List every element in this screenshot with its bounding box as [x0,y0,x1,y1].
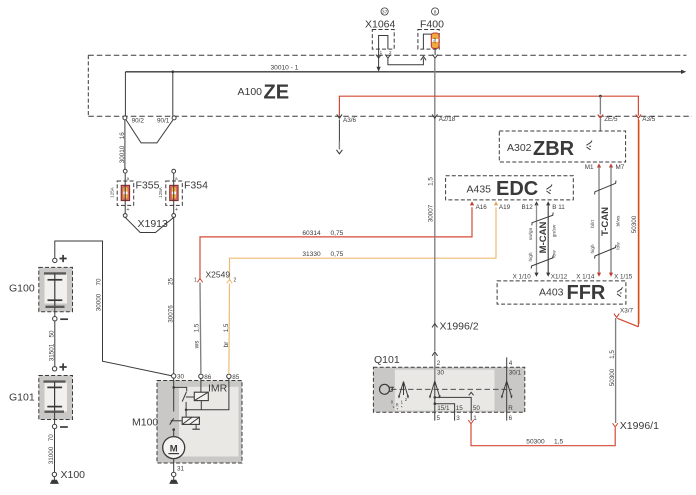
solenoid coil [182,417,199,424]
aux contact [391,382,409,410]
svg-text:2: 2 [437,360,441,367]
wire 30076 25 [173,217,175,373]
connector arrow at Q101 pin1 [468,420,473,424]
pin 31 [173,459,175,473]
svg-text:G100: G100 [9,283,35,295]
wire 50300 red down right side [637,119,639,327]
fuse F400 element 15A [431,33,439,48]
svg-text:M1: M1 [585,164,594,171]
svg-text:5: 5 [437,415,441,422]
pin B11 [546,201,550,205]
ignition switch Q101 box [373,367,524,412]
svg-text:15: 15 [456,405,464,412]
svg-text:A3/5: A3/5 [642,116,655,123]
svg-text:1: 1 [473,415,477,422]
connector glyph FFR [617,287,623,296]
svg-text:T-CAN: T-CAN [600,207,611,236]
wire 50300 1,5 red bottom [471,424,615,446]
svg-text:ZE: ZE [264,82,290,104]
svg-text:ZE/5: ZE/5 [604,116,618,123]
svg-text:high: high [528,252,534,261]
pin M1 [597,163,601,167]
svg-text:37: 37 [382,9,388,15]
wire 15/1 [434,404,436,413]
svg-text:+: + [175,207,178,213]
pin 30 [172,374,176,378]
mechanical link dashed [391,388,512,390]
svg-text:4: 4 [509,360,513,367]
svg-text:16: 16 [119,132,126,140]
svg-text:86: 86 [204,374,212,381]
wire 31000 70 [54,429,56,473]
connector X2549 pin1 [197,279,202,283]
connector X100 ground [50,472,59,484]
svg-text:31000: 31000 [48,446,55,464]
svg-text:70: 70 [48,434,55,442]
svg-text:90/2: 90/2 [132,118,145,125]
wire to relay contact [174,387,187,391]
svg-text:F355: F355 [136,180,160,192]
svg-text:F354: F354 [184,180,208,192]
wire bus to pin 90/2 [124,72,126,116]
wire 30010 16 to F355 [124,120,126,169]
pin B12 [534,201,538,205]
svg-text:30: 30 [437,370,445,377]
connector X1996/2 [432,324,437,328]
svg-text:B 11: B 11 [552,204,565,211]
svg-text:8: 8 [434,9,437,15]
svg-text:A403: A403 [539,287,564,299]
pin arrow X1/14 [597,273,601,277]
svg-text:31: 31 [177,465,185,472]
svg-text:bl/ws: bl/ws [615,215,621,227]
svg-text:A100: A100 [238,86,263,98]
svg-text:30010: 30010 [119,145,126,163]
relay contact arm [182,392,186,402]
svg-text:31330: 31330 [302,251,321,258]
wire bus to pin 90/1 [172,72,174,116]
harness funnel under 90/2 90/1 [126,120,173,143]
wire pin86 to coil [200,379,202,393]
svg-text:2: 2 [234,278,237,284]
svg-text:60314: 60314 [302,230,321,237]
svg-text:low: low [551,250,557,258]
ECU A100 ZE dashed box [88,55,692,116]
pin 90/1 [172,116,176,120]
svg-text:30010 - 1: 30010 - 1 [271,65,299,72]
main contact 30 [429,360,445,405]
contact R [501,357,522,401]
svg-text:30: 30 [177,374,185,381]
connector X1064 housing [372,30,394,56]
svg-text:70: 70 [96,278,103,286]
svg-text:A19: A19 [499,204,511,211]
svg-text:X3/7: X3/7 [620,307,633,314]
svg-text:25: 25 [168,278,175,286]
main contact [170,418,174,424]
svg-text:FFR: FFR [567,282,606,304]
svg-text:Q101: Q101 [374,354,400,366]
svg-text:M: M [170,443,178,454]
svg-text:B12: B12 [522,204,534,211]
svg-text:X 1/14: X 1/14 [576,273,595,280]
svg-text:90/1: 90/1 [157,118,170,125]
red feed wire inside ZE [339,95,638,116]
svg-text:M100: M100 [132,417,158,429]
T-CAN low wire [610,167,612,273]
wire br 1,5 to pin85 [228,284,231,375]
svg-text:1,5: 1,5 [554,438,563,445]
svg-text:31501: 31501 [48,343,55,361]
ground under M100 [173,477,175,480]
svg-text:M-CAN: M-CAN [538,222,549,254]
T-CAN high wire [598,167,600,273]
svg-text:50: 50 [48,330,55,338]
svg-text:30000: 30000 [96,293,103,311]
pin arrow F400 output [432,55,437,59]
svg-text:15A: 15A [433,37,437,44]
svg-text:low: low [615,242,621,250]
svg-text:1,5: 1,5 [609,350,616,359]
svg-text:0,75: 0,75 [331,230,344,237]
svg-text:1,5: 1,5 [223,323,230,332]
pin A19 [494,201,498,205]
M-CAN low wire [547,205,549,274]
T-CAN twist top [595,181,616,195]
pin 86 [199,374,203,378]
svg-text:IMR: IMR [208,383,228,395]
svg-text:X 1/15: X 1/15 [614,273,633,280]
svg-text:gn/sw: gn/sw [551,224,557,237]
svg-text:R: R [508,405,513,412]
svg-text:A16: A16 [476,204,488,211]
fuse F354 [158,169,208,217]
svg-text:R: R [396,402,399,407]
connector X1996/1 [613,423,618,427]
svg-text:A302: A302 [507,142,532,154]
ECU A403 FFR box [497,281,626,304]
fuse F355 [109,169,159,217]
pin 85 [227,374,231,378]
svg-text:X 1/10: X 1/10 [513,273,532,280]
svg-text:X1064: X1064 [365,19,396,31]
wire ZE/5 drop [599,96,601,114]
svg-text:1: 1 [194,278,197,284]
pin A16 [470,201,474,205]
svg-text:EDC: EDC [496,178,538,200]
svg-text:1,5: 1,5 [194,323,201,332]
ECU A435 EDC box [446,176,574,200]
relay coil IMR [194,392,208,400]
bus wire 30010-1 [125,65,686,74]
svg-text:6: 6 [509,415,513,422]
svg-text:50300: 50300 [609,368,616,386]
fuse F400 box [418,30,439,50]
svg-text:X100: X100 [61,469,86,481]
svg-text:A3/6: A3/6 [343,117,356,124]
svg-text:X1/12: X1/12 [551,273,568,280]
svg-text:30007: 30007 [428,204,435,222]
wire 30000 70 battery to starter [55,241,172,376]
svg-text:15/1: 15/1 [437,405,450,412]
svg-text:3: 3 [456,415,460,422]
key symbol [380,384,395,394]
svg-text:M7: M7 [616,164,625,171]
wire pin30 down [173,378,175,411]
svg-text:+: + [126,207,129,213]
svg-text:X2549: X2549 [206,270,231,280]
pin arrow X1064-2 [385,55,390,59]
svg-text:85: 85 [232,374,240,381]
wire 60314 0,75 red to EDC A16 [200,207,472,280]
M-CAN twist top [532,213,553,226]
svg-text:ws: ws [194,341,201,350]
svg-text:X1996/2: X1996/2 [440,320,479,332]
pin arrow X1/15 [609,273,613,277]
wire 30007 1,5 from F400 to Q101 [434,58,436,351]
fuse F400 circled 8 [432,8,439,15]
svg-text:30/1: 30/1 [509,370,522,377]
junction funnel X1913 [125,217,174,232]
svg-text:X1996/1: X1996/1 [620,420,659,432]
connector X2549 pin2 [227,280,232,284]
svg-text:bl/rt: bl/rt [590,219,596,228]
pin arrow A2/18 [432,114,437,118]
wire 31501 50 [54,321,56,367]
pin arrow X1064-1 [376,55,381,59]
M-CAN high wire [536,205,538,274]
ECU A302 ZBR box [499,131,625,162]
T-CAN twist bottom [595,245,616,259]
svg-text:A2/18: A2/18 [439,116,456,123]
pin arrow F400 input [421,56,426,60]
svg-text:G101: G101 [9,392,35,404]
battery G100 [39,255,73,321]
svg-text:0,75: 0,75 [331,251,344,258]
svg-text:50300: 50300 [526,438,545,445]
svg-text:high: high [590,244,596,253]
svg-text:F400: F400 [420,19,444,31]
wire 50 [435,397,471,420]
wire X1064-1 to bus [378,49,380,70]
connector X1064 circled 37 [381,8,388,15]
svg-text:ZBR: ZBR [533,138,575,160]
pin arrow X1/12 [546,273,550,277]
svg-text:br: br [223,342,230,348]
pin arrow A3/6 [337,114,342,118]
svg-text:30076: 30076 [168,305,175,323]
pin M7 [609,163,613,167]
wire 15 [435,404,455,421]
svg-text:1,5: 1,5 [428,177,435,186]
pin R stub [506,402,508,421]
wire 31330 0,75 orange to EDC A19 [230,207,497,281]
motor M [163,437,185,459]
svg-text:A435: A435 [467,184,492,196]
pin 90/2 [123,116,127,120]
M-CAN twist bottom [531,255,553,268]
svg-text:50300: 50300 [631,215,638,233]
connector glyph ZBR [587,141,593,150]
stub wire below A3/6 [338,120,340,142]
red jog to X3/7 [617,318,638,327]
arrow into Q101 pin 2 [432,352,437,356]
battery G101 [39,363,73,428]
pin arrow A3/5 [636,114,641,118]
wire contact to solenoid [185,402,187,417]
connector glyph EDC [547,185,553,194]
pin arrow X1/10 [534,273,538,277]
wire ws 1,5 to pin86 [199,283,202,375]
starter motor M100 box [157,381,242,464]
svg-text:50: 50 [473,405,481,412]
svg-text:125A: 125A [109,186,114,198]
wire X1064-2 to F400 input [388,58,424,64]
wire 50300 1,5 gray [615,318,617,423]
svg-text:125A: 125A [158,186,163,198]
svg-text:X1913: X1913 [138,218,169,230]
wire coil to pin85 [186,379,229,410]
svg-text:sw/gn: sw/gn [528,227,534,240]
solenoid ground [195,424,197,428]
